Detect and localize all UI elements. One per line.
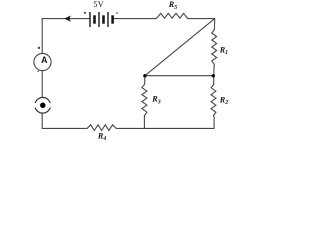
svg-text:R4: R4 [97, 131, 106, 142]
galvanometer / source circle arcs [35, 97, 50, 102]
bottom wire right segment [116, 127, 214, 129]
svg-text:A: A [41, 55, 48, 65]
lamp center dot [40, 103, 46, 109]
wire R1 to junction B [213, 64, 216, 75]
wire R2 to bottom-right corner [213, 116, 216, 129]
diagonal wire corner to node A [145, 19, 215, 76]
ammeter A1 circle [34, 53, 51, 70]
resistor R5 body [156, 13, 187, 18]
wire ammeter to lamp circle [41, 71, 43, 98]
bottom wire left segment [42, 113, 87, 128]
svg-text:R2: R2 [219, 95, 228, 106]
ammeter plus mark [38, 47, 40, 49]
wire R3 to bottom [143, 116, 145, 129]
battery B1 plates: short thick plates [95, 15, 113, 23]
current arrow on top wire [65, 16, 71, 21]
wire node A down to R3 [144, 76, 146, 84]
battery plus mark [84, 12, 86, 14]
wire top-left from corner to battery [42, 19, 90, 54]
svg-text:5V: 5V [93, 0, 104, 9]
resistor R3 body [142, 84, 147, 116]
resistor R2 body [211, 85, 216, 116]
svg-text:R3: R3 [151, 95, 160, 106]
svg-text:R5: R5 [168, 0, 177, 11]
junction node B [212, 74, 216, 78]
wire battery to R5 [114, 18, 157, 20]
resistor R4 body [87, 125, 116, 131]
ammeter minus mark [38, 70, 39, 72]
battery minus mark [116, 12, 118, 14]
junction node A [143, 74, 147, 78]
middle horizontal wire A-B [145, 75, 214, 77]
resistor R1 body [212, 30, 217, 65]
wire node B down to R2 [213, 76, 215, 85]
svg-text:R1: R1 [219, 45, 228, 56]
battery B1 plates: long plates [90, 12, 108, 27]
wire right rail top [213, 19, 215, 30]
wire R5 to top-right corner [188, 18, 215, 20]
